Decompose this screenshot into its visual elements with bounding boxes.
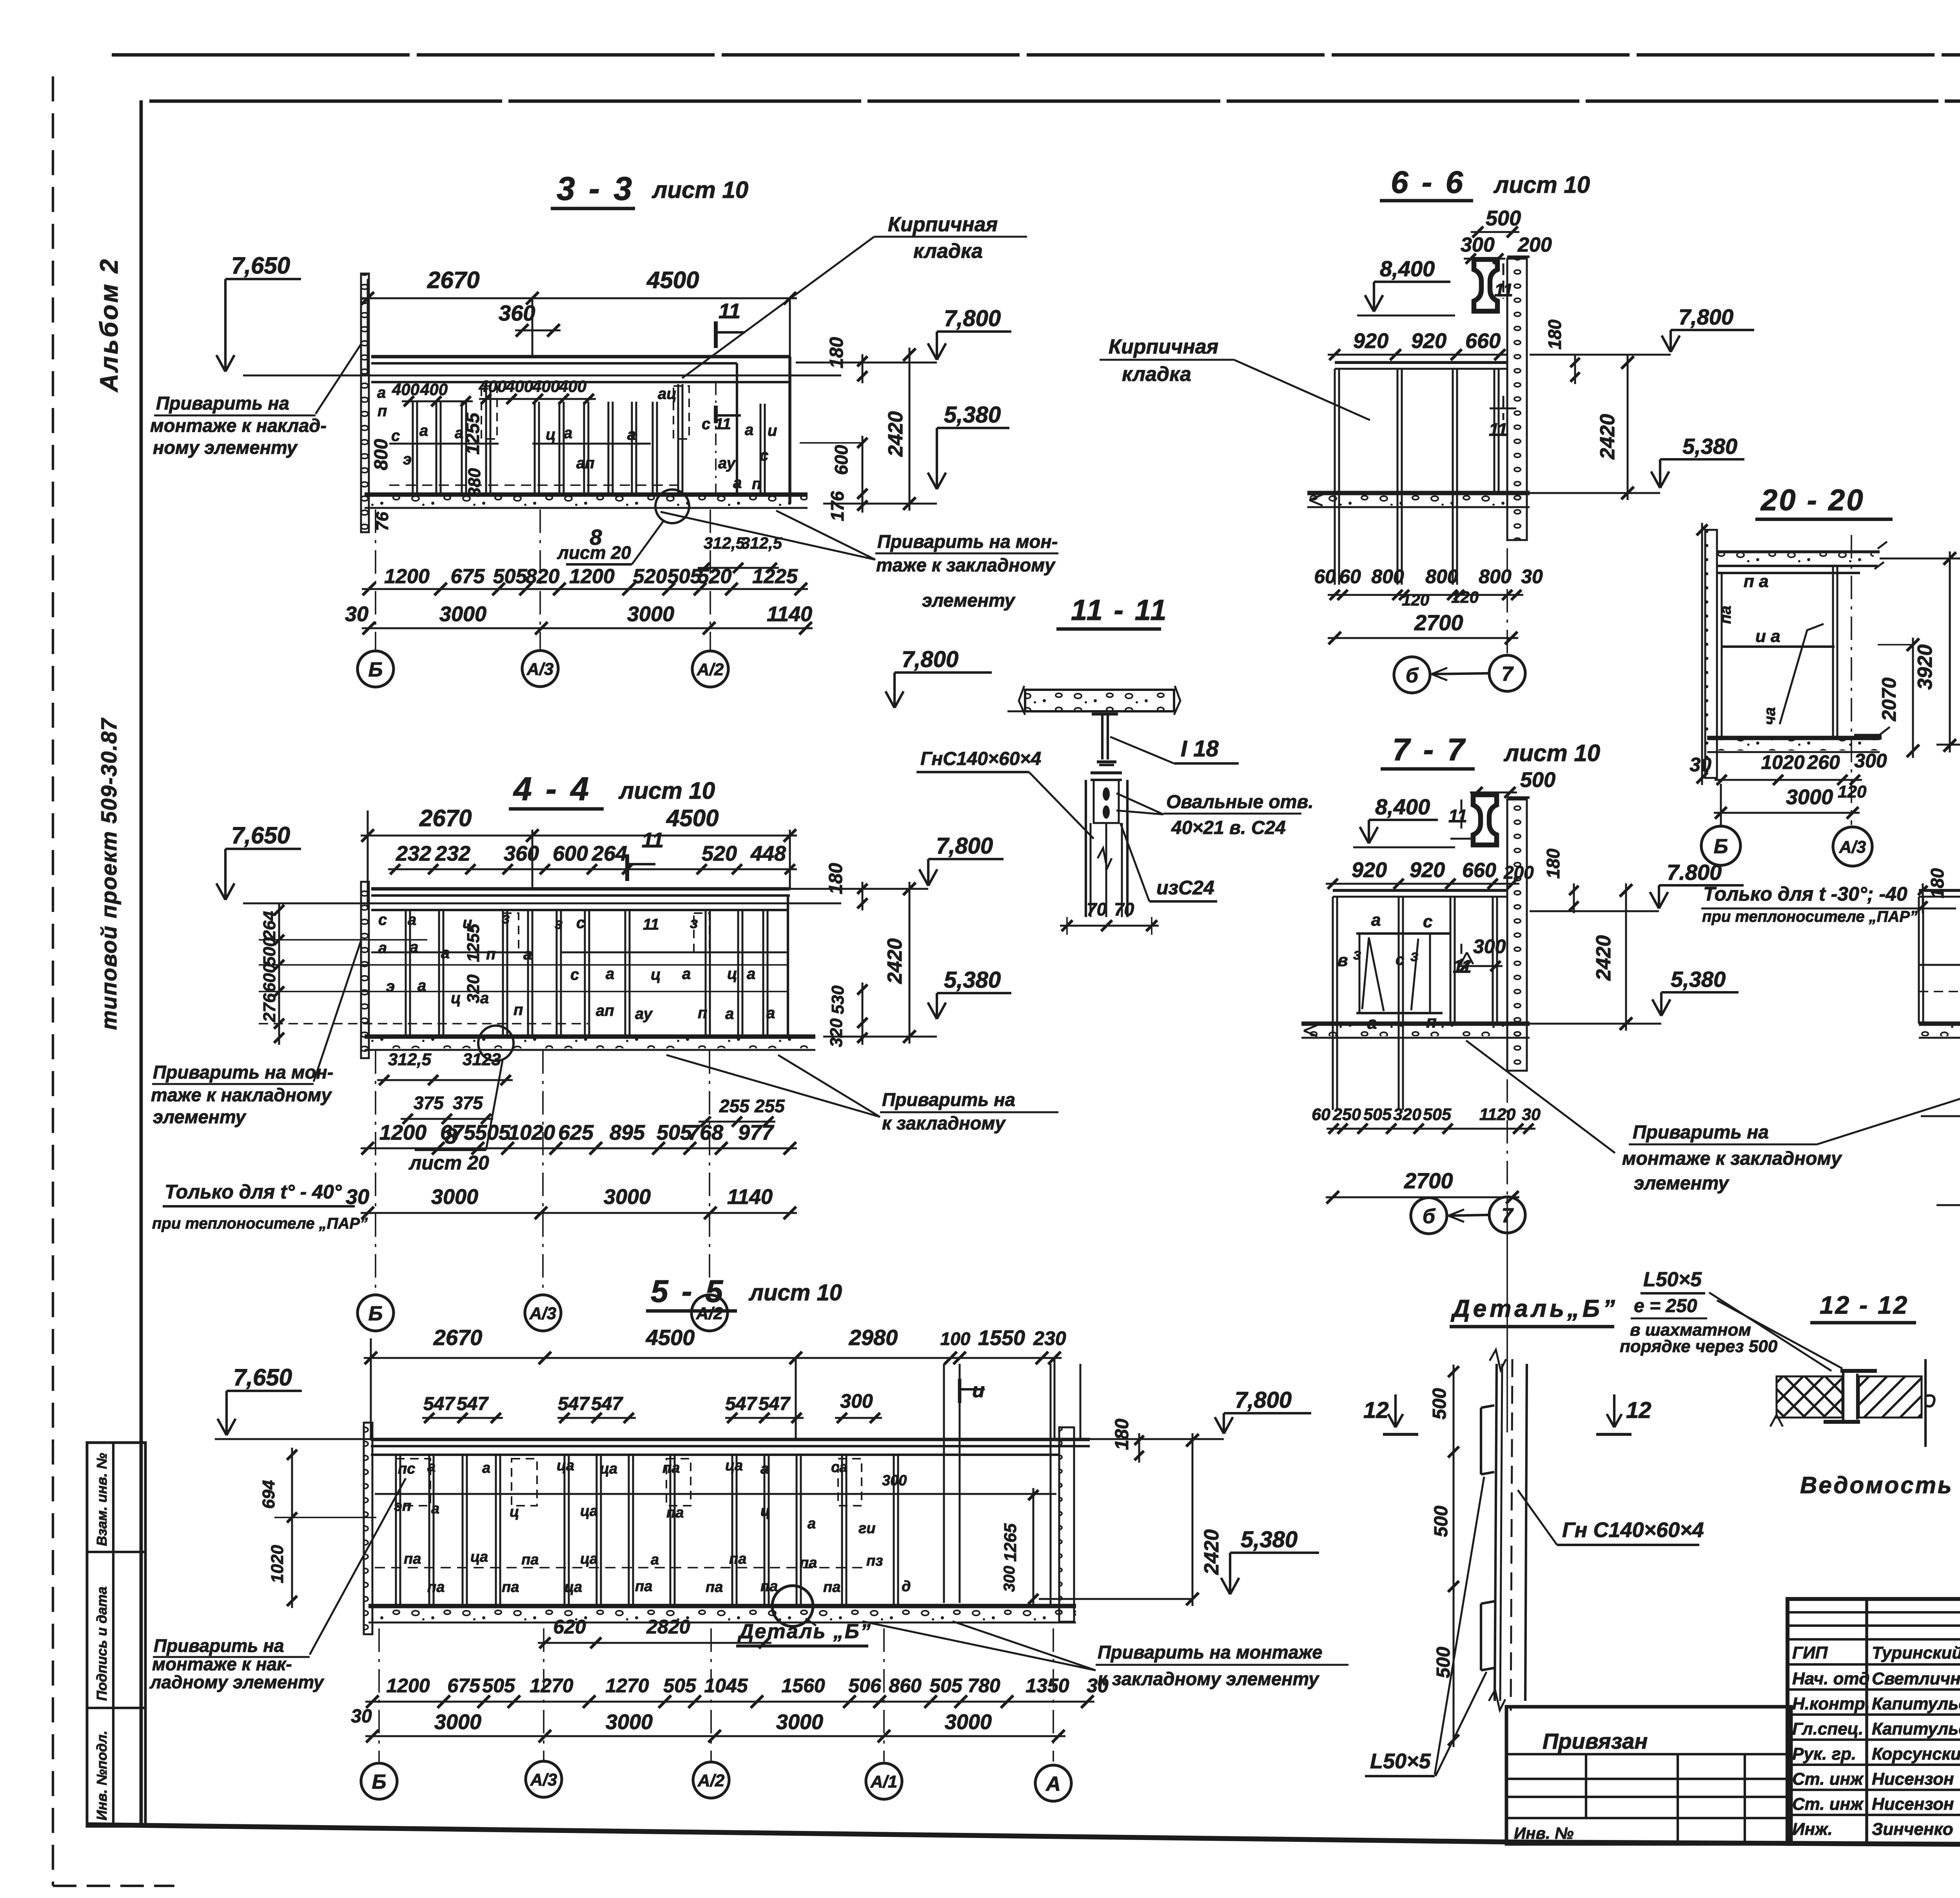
svg-text:230: 230 [1033,1327,1066,1349]
svg-text:505: 505 [657,1121,692,1144]
svg-text:Капитульский: Капитульский [1872,1719,1960,1738]
svg-text:2420: 2420 [1200,1529,1223,1575]
svg-text:120: 120 [1451,588,1479,606]
svg-text:547: 547 [558,1394,590,1414]
svg-text:лист 10: лист 10 [1503,740,1600,766]
5-5 axis circle А/1 [866,1763,902,1799]
svg-text:180: 180 [1927,868,1947,898]
6-6 wall [1507,259,1527,540]
svg-text:ча: ча [1761,707,1779,725]
svg-text:ау: ау [635,1005,653,1022]
4-4 bottom chord with slab [365,1034,815,1039]
5-5 axis lines [378,1628,380,1762]
svg-text:505: 505 [475,1121,511,1144]
svg-text:180: 180 [1112,1419,1132,1450]
svg-text:ца: ца [580,1503,598,1519]
svg-text:5 - 5: 5 - 5 [651,1274,725,1309]
svg-text:Инж.: Инж. [1792,1820,1833,1839]
svg-text:180: 180 [1543,848,1563,879]
svg-text:200: 200 [1503,862,1534,883]
svg-text:а: а [733,474,742,491]
5-5 axis circle А/2 [693,1762,729,1798]
svg-text:300: 300 [840,1390,873,1412]
svg-text:А/1: А/1 [870,1772,897,1791]
svg-text:530: 530 [828,985,848,1014]
svg-text:360: 360 [499,301,535,325]
svg-text:ца: ца [725,1457,743,1474]
svg-text:Капитульски: Капитульски [1872,1694,1960,1713]
4-4 top beam [371,887,790,891]
svg-text:5,380: 5,380 [944,402,1001,428]
svg-text:элементу: элементу [153,1106,247,1127]
svg-text:Привязан: Привязан [1543,1729,1648,1753]
svg-text:500: 500 [1520,768,1555,792]
11-11 column shafts [1085,780,1087,917]
svg-text:312,5: 312,5 [388,1050,432,1069]
svg-text:Кирпичная: Кирпичная [1109,335,1218,358]
svg-text:600: 600 [553,842,588,865]
svg-text:элементу: элементу [922,590,1016,611]
svg-text:ца: ца [557,1457,574,1474]
svg-text:Б: Б [1714,835,1728,858]
svg-text:4500: 4500 [646,1325,695,1350]
svg-text:375: 375 [414,1093,444,1113]
svg-text:800: 800 [1371,566,1404,587]
svg-text:а: а [627,426,636,443]
6-6 frame top chord [1335,361,1507,364]
svg-text:1265: 1265 [1001,1523,1020,1562]
svg-text:лист 10: лист 10 [618,778,715,804]
svg-text:5,380: 5,380 [944,967,1001,993]
svg-text:лист 10: лист 10 [652,177,748,203]
4-4 axis circle Б [358,1295,394,1331]
6-6 rail symbol [1474,259,1497,311]
svg-text:547: 547 [591,1394,623,1414]
5-5 axis circle Б [361,1763,397,1799]
svg-text:2420: 2420 [884,938,906,984]
3-3 right brick edge [736,363,738,495]
svg-text:5,380: 5,380 [1682,434,1737,459]
svg-text:375: 375 [453,1093,483,1113]
svg-text:А/2: А/2 [697,1771,725,1790]
svg-text:з: з [690,914,698,932]
svg-text:448: 448 [750,842,786,865]
svg-text:и: и [768,422,777,439]
svg-text:а: а [651,1552,659,1568]
svg-text:7,800: 7,800 [902,647,958,672]
svg-text:176: 176 [827,491,848,521]
svg-text:660: 660 [1462,859,1496,882]
3-3 cut mark 11 lower [714,406,718,423]
svg-text:Ст. инж: Ст. инж [1792,1795,1864,1814]
svg-text:ц: ц [651,966,661,983]
svg-text:Ст. инж: Ст. инж [1792,1769,1864,1789]
svg-text:100: 100 [940,1329,971,1349]
svg-text:320: 320 [827,1018,846,1047]
9-9 bottom chord [1919,1021,1960,1026]
svg-text:400: 400 [505,377,533,395]
svg-text:а: а [760,1461,769,1477]
svg-text:600: 600 [831,445,851,475]
svg-text:276: 276 [260,993,279,1022]
svg-text:па: па [666,1505,684,1521]
7-7 axis line [1506,1039,1508,1196]
svg-text:360: 360 [504,842,539,865]
7-7 axis circle 7 [1489,1197,1525,1233]
margin stamp table [87,1443,145,1826]
svg-text:а: а [1371,910,1381,930]
svg-text:Светличный: Светличный [1872,1669,1960,1688]
svg-text:2980: 2980 [849,1325,898,1350]
9-9 top chord [1919,889,1960,892]
4-4 axis circle А/3 [525,1295,561,1331]
6-6 axis circle 7 [1489,655,1525,691]
svg-text:7 - 7: 7 - 7 [1392,732,1467,767]
svg-text:Инв. №подл.: Инв. №подл. [94,1731,110,1820]
svg-text:п а: п а [1744,572,1769,591]
svg-text:з: з [1353,946,1361,963]
svg-text:Деталь „Б”: Деталь „Б” [737,1620,872,1643]
svg-text:лист 20: лист 20 [408,1152,489,1174]
svg-text:лист 20: лист 20 [557,542,631,563]
6-6 bottom chord [1307,491,1530,495]
svg-text:920: 920 [1353,329,1388,353]
svg-text:3000: 3000 [1786,785,1833,809]
svg-text:Гн С140×60×4: Гн С140×60×4 [1562,1518,1704,1542]
svg-text:675: 675 [451,565,485,588]
svg-text:к закладному элементу: к закладному элементу [1098,1668,1320,1689]
svg-text:L50×5: L50×5 [1370,1749,1431,1773]
svg-text:а: а [523,946,532,963]
svg-text:з: з [1410,947,1418,964]
svg-text:а: а [441,944,450,962]
svg-text:11: 11 [642,828,664,852]
svg-text:3000: 3000 [945,1710,992,1734]
7-7 bottom chord [1301,1021,1530,1026]
svg-text:Н.контр.: Н.контр. [1792,1694,1870,1713]
svg-text:12: 12 [1363,1398,1389,1423]
svg-text:8,400: 8,400 [1380,256,1435,281]
title block row lines (left part) [1788,1611,1960,1613]
svg-text:300: 300 [1473,935,1506,957]
svg-text:Приварить на: Приварить на [1633,1122,1769,1143]
svg-text:300: 300 [1461,234,1495,256]
svg-text:Корсунский: Корсунский [1872,1744,1960,1764]
svg-text:505: 505 [482,1675,515,1697]
svg-text:лист 10: лист 10 [1493,172,1590,198]
svg-text:ц: ц [727,965,737,983]
svg-text:30: 30 [1521,566,1543,587]
svg-text:70: 70 [1087,899,1107,919]
sheet outer top border line [112,53,1960,57]
svg-text:б: б [1406,664,1419,687]
svg-text:2070: 2070 [1878,678,1900,721]
12-12 channel [1840,1369,1877,1373]
svg-text:505: 505 [663,1675,697,1697]
svg-text:а: а [410,939,418,956]
svg-text:таже к накладному: таже к накладному [151,1084,332,1105]
svg-text:па: па [1717,605,1734,624]
svg-text:Приварить на: Приварить на [154,1635,284,1656]
svg-text:40×21 в. С24: 40×21 в. С24 [1171,818,1286,838]
svg-text:11: 11 [643,916,659,933]
svg-text:1255: 1255 [463,412,483,455]
svg-text:675: 675 [447,1675,481,1697]
svg-text:500: 500 [1429,1388,1450,1419]
svg-text:Туринский: Туринский [1872,1643,1960,1662]
svg-text:а: а [747,965,755,983]
svg-text:780: 780 [967,1675,1000,1697]
detail Б leaders to 12-12 [1709,1293,1831,1371]
svg-text:1140: 1140 [727,1185,773,1209]
svg-text:e = 250: e = 250 [1634,1296,1697,1316]
svg-text:11: 11 [1448,806,1467,826]
svg-text:Кирпичная: Кирпичная [888,213,998,236]
svg-text:порядке через 500: порядке через 500 [1620,1337,1778,1356]
7-7 axis connector [1448,1215,1488,1216]
svg-text:11: 11 [719,299,740,323]
svg-text:ца: ца [470,1549,488,1565]
svg-text:505: 505 [1423,1105,1452,1124]
svg-text:ау: ау [718,455,736,472]
svg-text:60: 60 [1314,566,1336,587]
4-4 detail bubble [478,1026,514,1061]
svg-text:д: д [902,1578,911,1595]
svg-text:264: 264 [592,842,627,865]
svg-text:7: 7 [1502,663,1514,685]
svg-text:лист 10: лист 10 [748,1280,842,1305]
svg-text:с: с [1396,951,1404,968]
svg-text:Б: Б [368,658,383,681]
svg-text:12 - 12: 12 - 12 [1820,1291,1909,1319]
svg-text:400: 400 [420,380,448,399]
svg-text:Деталь„Б”: Деталь„Б” [1450,1295,1618,1322]
4-4 axis lines [375,1050,376,1295]
svg-text:2700: 2700 [1414,610,1463,635]
svg-text:па: па [404,1551,421,1567]
7-7 rail symbol [1473,795,1497,845]
svg-text:60: 60 [1339,566,1361,587]
svg-text:п: п [486,946,495,963]
svg-text:232: 232 [435,842,470,865]
svg-text:кладка: кладка [913,240,983,263]
svg-text:ап: ап [596,1002,614,1019]
svg-text:1020: 1020 [268,1545,287,1583]
svg-text:а: а [606,965,614,983]
sheet bottom border [88,1825,1506,1842]
svg-text:па: па [635,1578,652,1595]
svg-text:п: п [377,402,387,420]
svg-text:1020: 1020 [1761,751,1804,773]
7-7 axis circle б [1411,1198,1447,1234]
svg-text:3000: 3000 [604,1185,651,1209]
svg-text:Взам. инв. №: Взам. инв. № [94,1453,110,1546]
svg-text:547: 547 [457,1394,489,1414]
svg-text:3000: 3000 [434,1710,481,1734]
12-12 left edge arrow [1769,1376,1777,1408]
svg-text:860: 860 [889,1675,922,1697]
11-11 slab [1025,690,1174,711]
12-12 right hatched block [1859,1376,1922,1418]
7-7 wall [1507,799,1527,1071]
3-3 studs [412,402,414,494]
5-5 axis circle А/3 [526,1761,562,1797]
svg-text:7: 7 [1502,1204,1514,1227]
svg-text:7.800: 7.800 [1667,860,1722,885]
svg-text:к закладному: к закладному [882,1113,1006,1133]
svg-text:2670: 2670 [419,805,472,831]
svg-text:ному элементу: ному элементу [153,437,298,458]
svg-text:255: 255 [754,1096,785,1116]
7-7 top chord [1333,889,1507,892]
svg-text:А/3: А/3 [1839,838,1866,857]
svg-text:а: а [725,1005,734,1022]
привязан box [1506,1707,1791,1844]
svg-text:а: а [419,422,428,439]
svg-text:А/3: А/3 [529,1304,556,1323]
3-3 axis circle А/2 [692,651,728,687]
svg-text:3000: 3000 [431,1185,478,1209]
svg-text:3000: 3000 [627,602,674,626]
svg-text:а: а [417,977,426,994]
svg-text:Нисензон: Нисензон [1872,1795,1954,1814]
svg-text:ца: ца [564,1579,582,1595]
svg-text:320: 320 [1393,1105,1421,1124]
5-5 studs [395,1455,397,1605]
svg-text:Овальные отв.: Овальные отв. [1166,792,1314,812]
svg-text:520: 520 [702,842,737,865]
svg-text:па: па [427,1579,445,1595]
svg-text:11 - 11: 11 - 11 [1071,594,1168,626]
11-11 oval holes [1103,787,1110,801]
svg-text:а: а [682,965,691,983]
svg-text:кладка: кладка [1122,363,1191,386]
20-20 axis circle А/3 [1833,827,1872,866]
svg-text:2420: 2420 [1592,935,1615,981]
svg-text:и а: и а [1755,627,1780,646]
6-6 axis circle б [1394,657,1430,693]
svg-text:па: па [800,1555,817,1571]
svg-text:1225: 1225 [752,565,798,588]
svg-text:1350: 1350 [1025,1675,1069,1697]
svg-text:2420: 2420 [1596,414,1619,460]
svg-text:180: 180 [826,863,846,894]
3-3 right top level line [796,362,937,364]
svg-text:1200: 1200 [379,1121,426,1144]
3-3 axis circle А/3 [522,651,558,687]
svg-text:500: 500 [1431,1506,1452,1537]
svg-text:547: 547 [759,1394,791,1414]
svg-text:Б: Б [368,1302,383,1325]
svg-text:977: 977 [738,1121,775,1144]
svg-text:4 - 4: 4 - 4 [513,770,591,807]
svg-text:30: 30 [351,1706,372,1727]
title block column lines [1865,1599,1868,1844]
3-3 top beam (slab) [371,355,790,359]
svg-text:2420: 2420 [884,411,907,457]
7-7 posts [1332,897,1334,1110]
svg-text:264: 264 [260,911,279,940]
svg-text:а: а [378,939,387,957]
svg-text:2700: 2700 [1404,1168,1453,1193]
svg-text:255: 255 [719,1096,750,1116]
svg-text:элементу: элементу [1634,1173,1730,1194]
svg-text:505: 505 [929,1675,963,1697]
svg-text:3000: 3000 [776,1710,823,1734]
svg-text:Б: Б [372,1771,387,1793]
3-3 axis lines [375,509,376,651]
4-4 ceiling level line [243,903,841,905]
svg-text:400: 400 [532,377,560,395]
3-3 interior girts [389,443,499,445]
svg-text:30: 30 [345,602,368,626]
svg-text:п: п [514,1001,523,1019]
4-4 axis circle А/2 [691,1295,728,1331]
svg-text:660: 660 [1465,329,1501,353]
svg-text:па: па [662,1460,680,1476]
svg-text:ц: ц [546,426,556,443]
svg-text:пз: пз [866,1553,883,1569]
title block outer box [1788,1599,1960,1844]
svg-text:Только для t° - 40°: Только для t° - 40° [165,1181,342,1203]
svg-text:920: 920 [1352,858,1387,882]
svg-text:8,400: 8,400 [1375,794,1430,819]
svg-text:895: 895 [610,1121,645,1144]
detail Б channel member [1495,1364,1497,1701]
svg-text:1200: 1200 [386,1675,430,1697]
20-20 top slab [1717,550,1880,553]
11-11 column cap and channel [1091,771,1122,774]
svg-text:А/2: А/2 [697,660,724,679]
svg-text:ладному элементу: ладному элементу [149,1672,325,1692]
svg-text:320: 320 [464,974,483,1003]
20-20 axis dash line [1851,535,1852,825]
svg-text:таже к закладному: таже к закладному [876,555,1056,575]
svg-text:506: 506 [848,1675,882,1697]
svg-text:а: а [745,421,753,439]
svg-text:а: а [808,1515,816,1532]
svg-text:с: с [570,966,579,983]
20-20 left wall [1705,530,1717,778]
svg-text:Рук. гр.: Рук. гр. [1792,1744,1856,1764]
svg-text:3920: 3920 [1914,644,1936,690]
svg-text:з: з [555,915,563,932]
svg-text:547: 547 [725,1394,757,1414]
svg-text:а: а [377,384,386,401]
svg-text:920: 920 [1410,858,1445,882]
3-3 ceiling level line [243,375,841,377]
svg-text:6 - 6: 6 - 6 [1391,165,1465,199]
sheet outer left border (dashed) [52,76,54,1886]
svg-text:1270: 1270 [605,1675,649,1697]
7-7 interior panel [1356,932,1450,935]
svg-text:232: 232 [396,842,431,865]
4-4 left wall column [361,882,369,1058]
20-20 girt [1722,645,1835,648]
svg-text:620: 620 [553,1616,586,1638]
svg-text:а: а [482,1460,490,1476]
sheet inner top border line [149,100,1960,103]
7-7 leader to note [1466,1041,1615,1153]
svg-text:2670: 2670 [427,267,479,293]
svg-text:пс: пс [398,1461,415,1477]
20-20 bottom chord [1707,736,1880,740]
svg-text:3 - 3: 3 - 3 [557,170,634,207]
svg-text:694: 694 [259,1480,278,1509]
svg-text:20 - 20: 20 - 20 [1760,484,1865,517]
sheet bottom-left outer dashed border [53,1885,174,1887]
svg-text:па: па [706,1579,723,1595]
